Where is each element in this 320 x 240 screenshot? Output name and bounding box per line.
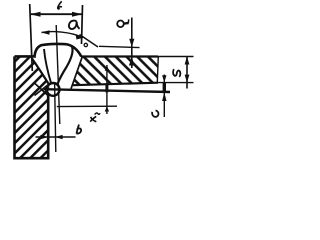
dimension q: lower arrow (up) [129, 57, 135, 65]
label k2: subscript 2 (tilde mark) [95, 113, 100, 115]
dimension b: right arrow (left-pointing at 54.8) [55, 135, 63, 139]
dimension l: left extension line [30, 4, 33, 71]
label l (script ell) [58, 1, 63, 9]
dimension s: bottom arrow [185, 75, 190, 83]
dimension s: bottom extension tick [158, 82, 194, 84]
alpha angle arc [42, 32, 84, 38]
dimension s: top extension tick [158, 56, 194, 58]
horizontal sheet (right, hatched, beveled left end) [71, 57, 158, 89]
dimension c: lower arrow (up to 92.3) [162, 92, 166, 101]
dimension b: dim line [36, 136, 76, 138]
fusion line L2 [44, 49, 52, 85]
label c (rotated, opens up) [151, 110, 159, 118]
dimension c: upper arrow (down to 82.6) [162, 75, 166, 82]
label q (rotated: ring + stem) [117, 19, 129, 27]
label b [76, 125, 81, 134]
weld bead dome [35, 44, 82, 57]
root bead line B [44, 89, 171, 92]
label s (rotated) [173, 69, 180, 77]
dimension l: left arrow [30, 12, 41, 17]
sheet top edge [81, 55, 158, 57]
dimension k2: lower arrow (up to line D) [105, 106, 109, 111]
dimension q: leader line [131, 18, 133, 69]
root circle [47, 83, 60, 96]
sheet bevel edge [71, 57, 82, 89]
dimension q: upper arrow (down) [129, 39, 134, 47]
weld centerline [56, 25, 60, 124]
tangency ring [84, 43, 87, 46]
dimension s: dim line [186, 57, 188, 89]
label alpha [69, 21, 80, 29]
dimension k2: blob bar [105, 85, 108, 93]
alpha arc left arrow [41, 30, 49, 34]
dimension l: dim line [30, 13, 82, 15]
dimension c: blob bar [163, 83, 166, 93]
sheet bottom edge [73, 83, 158, 86]
dimension q: reinforcement level tick [99, 46, 140, 47]
alpha arc right arrow [76, 35, 84, 40]
dimension k2: upper arrow [105, 65, 109, 71]
tangent line at weld toe [80, 35, 99, 48]
vertical plate (left, hatched) [15, 56, 50, 158]
dimension l: right extension line [82, 5, 83, 44]
weld left boundary L1 [32, 59, 50, 86]
label k2: Cyrillic k (x-mark) [90, 117, 96, 122]
dimension b: left arrow (right-pointing at 48.2) [40, 135, 48, 139]
sheet end face [157, 57, 158, 83]
groove right face (curved V right) [58, 46, 73, 84]
dimension s: top arrow [185, 57, 190, 65]
extension line D [57, 105, 117, 107]
sheet-face gap line M [55, 82, 56, 152]
root cross stroke 1 [35, 84, 49, 97]
dimension l: right arrow [72, 12, 82, 17]
dimension k2: dim line [106, 65, 108, 114]
dimension c: dim line [163, 75, 165, 118]
root cross stroke 2 [35, 84, 50, 96]
